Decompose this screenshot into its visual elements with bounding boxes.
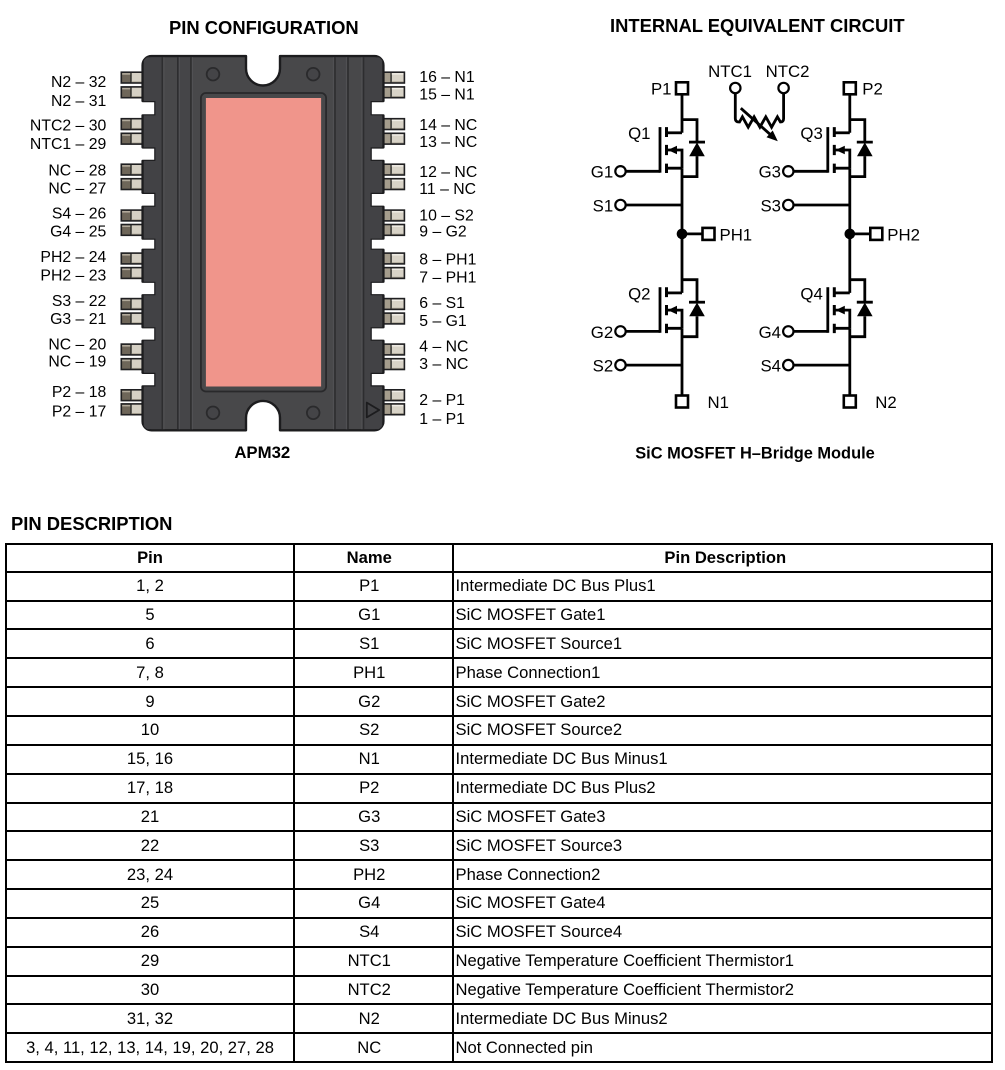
- svg-text:G2: G2: [591, 323, 613, 342]
- svg-text:6 – S1: 6 – S1: [419, 295, 465, 312]
- svg-text:NC – 20: NC – 20: [48, 336, 106, 353]
- svg-text:S1: S1: [593, 196, 614, 215]
- svg-text:15 – N1: 15 – N1: [419, 87, 475, 104]
- svg-text:Q1: Q1: [628, 124, 650, 143]
- svg-text:2 – P1: 2 – P1: [419, 392, 465, 409]
- svg-text:11 – NC: 11 – NC: [419, 181, 476, 198]
- svg-text:Q2: Q2: [628, 284, 650, 303]
- svg-text:NTC2 – 30: NTC2 – 30: [30, 117, 107, 134]
- svg-text:NTC1: NTC1: [708, 62, 752, 81]
- svg-text:12 – NC: 12 – NC: [419, 164, 477, 181]
- svg-text:APM32: APM32: [234, 443, 290, 462]
- svg-text:NTC1 – 29: NTC1 – 29: [30, 136, 107, 153]
- svg-text:NTC2: NTC2: [766, 62, 810, 81]
- svg-text:G1: G1: [591, 163, 613, 182]
- svg-text:N1: N1: [708, 393, 729, 412]
- svg-text:10 – S2: 10 – S2: [419, 208, 473, 225]
- svg-text:Q3: Q3: [800, 124, 822, 143]
- svg-text:1 – P1: 1 – P1: [419, 411, 465, 428]
- svg-text:N2 – 32: N2 – 32: [51, 74, 106, 91]
- svg-text:4 – NC: 4 – NC: [419, 339, 468, 356]
- svg-text:5 – G1: 5 – G1: [419, 313, 467, 330]
- svg-text:PH2 – 23: PH2 – 23: [40, 267, 106, 284]
- svg-text:3 – NC: 3 – NC: [419, 356, 468, 373]
- svg-text:13 – NC: 13 – NC: [419, 134, 477, 151]
- svg-text:16 – N1: 16 – N1: [419, 69, 475, 86]
- svg-text:PH2 – 24: PH2 – 24: [40, 249, 106, 266]
- svg-text:NC – 19: NC – 19: [48, 354, 106, 371]
- svg-text:S3 – 22: S3 – 22: [52, 293, 106, 310]
- svg-text:P2: P2: [862, 80, 883, 99]
- svg-text:S3: S3: [760, 196, 781, 215]
- svg-text:S4 – 26: S4 – 26: [52, 206, 107, 223]
- svg-text:NC – 27: NC – 27: [48, 180, 106, 197]
- svg-text:P2 – 17: P2 – 17: [52, 404, 106, 421]
- svg-text:N2 – 31: N2 – 31: [51, 93, 107, 110]
- svg-text:G4: G4: [759, 323, 781, 342]
- svg-text:S4: S4: [760, 357, 781, 376]
- svg-text:G3 – 21: G3 – 21: [50, 311, 106, 328]
- svg-text:G4 – 25: G4 – 25: [50, 224, 106, 241]
- svg-text:N2: N2: [875, 393, 896, 412]
- svg-text:P1: P1: [651, 80, 672, 99]
- svg-text:14 – NC: 14 – NC: [419, 117, 477, 134]
- svg-text:Q4: Q4: [800, 284, 822, 303]
- svg-text:G3: G3: [759, 163, 781, 182]
- svg-text:9 – G2: 9 – G2: [419, 224, 466, 241]
- svg-text:NC – 28: NC – 28: [48, 163, 106, 180]
- svg-text:S2: S2: [593, 357, 614, 376]
- svg-text:8 – PH1: 8 – PH1: [419, 252, 476, 269]
- svg-text:SiC MOSFET H–Bridge Module: SiC MOSFET H–Bridge Module: [635, 445, 875, 463]
- svg-text:P2 – 18: P2 – 18: [52, 384, 107, 401]
- svg-text:PH2: PH2: [887, 225, 920, 244]
- svg-text:PH1: PH1: [720, 225, 753, 244]
- svg-text:7 – PH1: 7 – PH1: [419, 270, 476, 287]
